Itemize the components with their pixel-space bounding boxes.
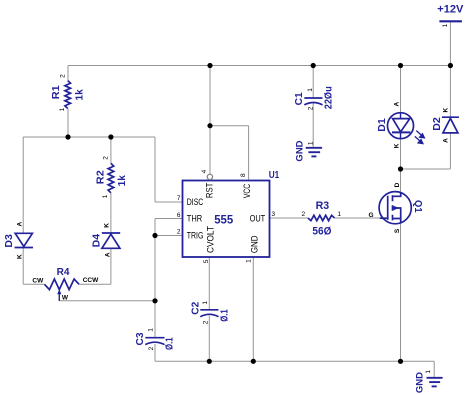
svg-text:2: 2: [307, 106, 314, 110]
svg-text:D4: D4: [92, 233, 103, 247]
svg-text:K: K: [394, 143, 401, 148]
svg-text:6: 6: [177, 212, 181, 219]
svg-text:C2: C2: [190, 301, 201, 314]
svg-text:A: A: [443, 138, 450, 143]
svg-text:1: 1: [337, 211, 341, 218]
svg-text:K: K: [103, 223, 110, 228]
svg-text:2: 2: [103, 156, 110, 160]
svg-text:555: 555: [214, 212, 233, 226]
svg-text:1: 1: [442, 23, 449, 27]
svg-text:1: 1: [246, 259, 253, 263]
svg-text:R3: R3: [316, 200, 330, 212]
svg-text:GND: GND: [250, 235, 260, 253]
svg-text:1: 1: [307, 88, 314, 92]
svg-text:C3: C3: [135, 332, 146, 345]
svg-text:RST: RST: [205, 182, 215, 198]
svg-text:1: 1: [59, 107, 66, 111]
svg-text:THR: THR: [187, 214, 202, 224]
svg-text:2: 2: [148, 346, 155, 350]
svg-text:2: 2: [177, 228, 181, 235]
svg-text:K: K: [443, 107, 450, 112]
svg-text:CW: CW: [32, 277, 44, 284]
svg-text:1: 1: [202, 301, 209, 305]
svg-text:R2: R2: [95, 170, 106, 184]
svg-text:A: A: [394, 102, 401, 107]
svg-text:1: 1: [307, 141, 314, 145]
svg-text:5: 5: [203, 259, 210, 263]
svg-text:DISC: DISC: [187, 197, 204, 207]
svg-text:OUT: OUT: [250, 214, 266, 224]
svg-text:1: 1: [102, 194, 109, 198]
svg-text:VCC: VCC: [242, 183, 252, 198]
svg-text:Ø.1: Ø.1: [165, 337, 176, 350]
svg-text:CCW: CCW: [83, 277, 99, 284]
svg-text:1: 1: [148, 328, 155, 332]
svg-text:1k: 1k: [74, 89, 85, 101]
svg-text:W: W: [62, 294, 69, 301]
svg-text:CVOLT: CVOLT: [206, 225, 216, 253]
svg-text:D2: D2: [432, 117, 443, 131]
svg-text:A: A: [17, 222, 24, 227]
svg-text:7: 7: [177, 195, 181, 202]
svg-text:C1: C1: [294, 92, 305, 105]
svg-text:U1: U1: [269, 170, 280, 181]
svg-text:2: 2: [60, 74, 67, 78]
svg-text:A: A: [104, 252, 111, 257]
svg-text:D: D: [394, 182, 401, 187]
svg-text:4: 4: [201, 169, 208, 173]
svg-text:R1: R1: [51, 85, 62, 99]
svg-text:R4: R4: [57, 267, 70, 278]
svg-text:2: 2: [301, 211, 305, 218]
svg-text:D3: D3: [4, 234, 15, 248]
svg-text:3: 3: [272, 211, 276, 218]
svg-text:2: 2: [203, 320, 210, 324]
svg-text:22Øu: 22Øu: [324, 86, 335, 109]
svg-text:Q1: Q1: [412, 200, 423, 213]
svg-text:56Ø: 56Ø: [312, 225, 331, 237]
svg-text:G: G: [368, 212, 373, 219]
svg-text:GND: GND: [414, 372, 425, 393]
svg-text:GND: GND: [294, 140, 305, 161]
svg-text:S: S: [394, 228, 401, 233]
svg-text:D1: D1: [377, 118, 388, 132]
svg-text:8: 8: [240, 173, 247, 177]
svg-text:Ø.1: Ø.1: [219, 309, 230, 322]
svg-text:+12V: +12V: [437, 4, 464, 16]
svg-text:1k: 1k: [117, 175, 128, 187]
svg-text:TRIG: TRIG: [187, 230, 204, 240]
svg-text:K: K: [17, 254, 24, 259]
svg-text:1: 1: [425, 370, 432, 374]
